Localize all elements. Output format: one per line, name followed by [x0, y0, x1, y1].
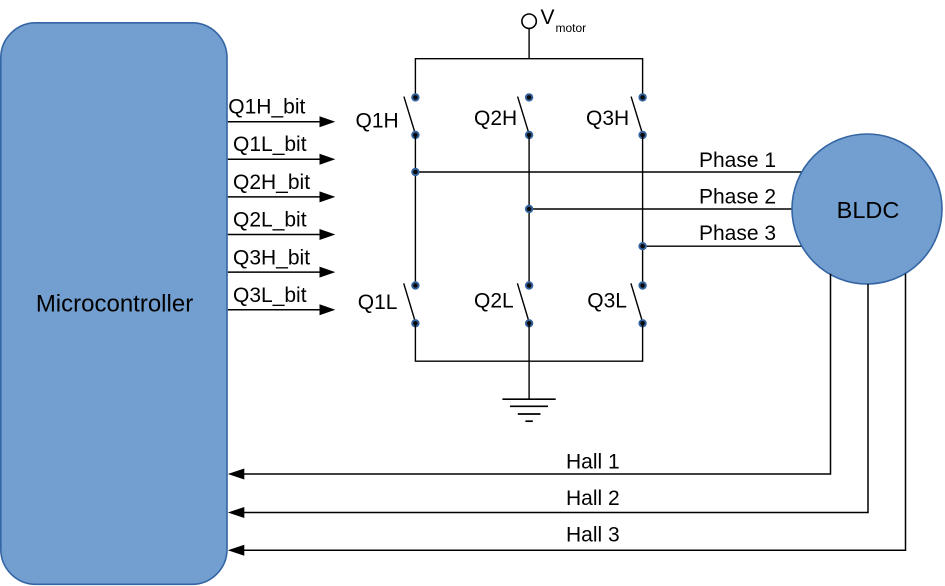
node phase 2 junction: [526, 206, 533, 213]
wire Phase 1: [415, 149, 802, 172]
wire Vmotor to top rail: [528, 29, 530, 59]
switch Q1L: [358, 282, 419, 326]
svg-text:Q2L_bit: Q2L_bit: [233, 209, 307, 232]
signal arrow Q1H_bit: [228, 96, 335, 128]
svg-text:V: V: [541, 6, 555, 29]
Vmotor terminal: [522, 6, 586, 35]
svg-text:Phase 2: Phase 2: [699, 186, 776, 209]
switch Q2L: [474, 282, 532, 326]
wire left branch vertical: [414, 135, 416, 286]
svg-text:motor: motor: [556, 21, 587, 35]
wire right branch vertical: [642, 135, 644, 286]
svg-text:Q2H_bit: Q2H_bit: [233, 171, 310, 194]
svg-text:Q3H_bit: Q3H_bit: [233, 246, 310, 269]
svg-text:Q2L: Q2L: [474, 290, 514, 313]
motor BLDC: [792, 134, 942, 284]
signal arrow Q3L_bit: [228, 284, 335, 315]
svg-text:BLDC: BLDC: [837, 197, 900, 223]
svg-text:Q1H: Q1H: [356, 110, 399, 133]
wire middle to ground: [528, 323, 530, 399]
svg-text:Q3L: Q3L: [587, 290, 627, 313]
wire Hall 3: [228, 274, 906, 556]
wire middle branch vertical: [528, 135, 530, 286]
svg-text:Phase 1: Phase 1: [699, 149, 776, 172]
microcontroller U1 block: [1, 23, 227, 585]
signal arrow Q2L_bit: [228, 209, 335, 240]
wire Phase 2: [529, 186, 792, 210]
node phase 1 junction: [412, 169, 419, 176]
wire Hall 1: [228, 274, 831, 480]
svg-text:Phase 3: Phase 3: [699, 222, 776, 245]
switch Q2H: [474, 94, 532, 138]
svg-text:Q1L: Q1L: [358, 291, 398, 314]
switch Q1H: [356, 94, 419, 138]
svg-text:Hall 1: Hall 1: [566, 450, 620, 473]
svg-text:Q3L_bit: Q3L_bit: [233, 284, 307, 307]
signal arrow Q1L_bit: [228, 133, 335, 165]
svg-text:Hall 2: Hall 2: [566, 487, 620, 510]
signal arrow Q2H_bit: [228, 171, 335, 203]
wire top rail: [415, 59, 642, 98]
signal arrow Q3H_bit: [228, 246, 335, 277]
ground: [502, 399, 555, 421]
svg-text:Q1H_bit: Q1H_bit: [228, 96, 305, 119]
svg-text:Hall 3: Hall 3: [566, 523, 620, 546]
svg-text:Microcontroller: Microcontroller: [36, 290, 193, 317]
switch Q3L: [587, 282, 646, 326]
svg-text:Q3H: Q3H: [586, 107, 629, 130]
wire Phase 3: [643, 222, 802, 246]
svg-text:Q2H: Q2H: [474, 107, 517, 130]
svg-text:Q1L_bit: Q1L_bit: [233, 133, 307, 156]
switch Q3H: [586, 94, 646, 138]
wire bottom rail: [415, 323, 642, 361]
node phase 3 junction: [639, 243, 646, 250]
wire Hall 2: [228, 284, 868, 518]
